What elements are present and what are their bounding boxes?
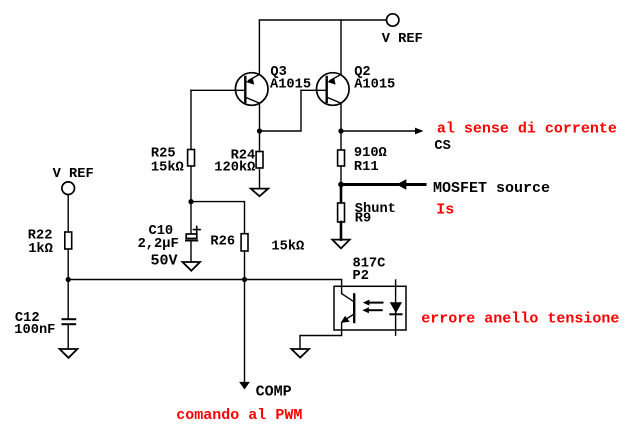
svg-text:2,2µF: 2,2µF	[138, 237, 179, 252]
ground under R24	[251, 189, 268, 197]
wire terminal to R22	[67, 195, 69, 233]
svg-text:MOSFET source: MOSFET source	[433, 180, 550, 197]
ground arrow under shunt R9	[332, 240, 349, 249]
svg-text:120kΩ: 120kΩ	[214, 160, 255, 175]
wire Q3 collector to Q2 base	[260, 90, 302, 131]
wire node to R24	[259, 131, 261, 152]
wire Q2 collector down to node	[340, 103, 342, 131]
wire R24 to ground	[259, 168, 261, 189]
node junction J5	[66, 277, 71, 282]
wire Q3 emitter to rail	[258, 20, 260, 75]
svg-text:P2: P2	[353, 269, 369, 284]
transistor Q3	[191, 73, 268, 106]
resistor R24	[256, 152, 263, 169]
wire J4 to R26	[191, 202, 245, 234]
svg-text:A1015: A1015	[354, 78, 395, 93]
wire C12 to ground	[67, 325, 69, 349]
svg-text:COMP: COMP	[256, 384, 292, 401]
wire COMP drop	[244, 280, 246, 383]
svg-text:V REF: V REF	[382, 32, 423, 47]
opto LED triangle	[390, 302, 402, 313]
capacitor C10 wire from J4	[190, 202, 192, 234]
opto light arrow upper	[369, 302, 383, 304]
capacitor C10 top plate	[186, 234, 197, 238]
svg-text:1kΩ: 1kΩ	[28, 242, 53, 257]
ground opto emitter	[291, 349, 309, 358]
wire R25 to junction J4	[190, 166, 192, 202]
opto light arrow lower	[368, 309, 382, 311]
resistor R26	[241, 234, 248, 251]
wire Q2 emitter to rail	[340, 20, 342, 75]
resistor R11	[338, 150, 345, 166]
node junction J2	[338, 128, 343, 133]
node junction J3 MOSFET source	[338, 182, 344, 188]
wire J5 to C12	[67, 280, 69, 319]
svg-text:R9: R9	[355, 212, 371, 227]
wire thick MOSFET source	[341, 183, 425, 186]
wire R11 to junction J3	[340, 166, 342, 185]
opto phototransistor	[341, 294, 355, 323]
wire thick shunt to arrow	[340, 222, 343, 240]
terminal V REF top right	[387, 14, 399, 26]
wire C10 to ground	[190, 242, 192, 263]
resistor R22	[65, 232, 72, 249]
svg-text:comando al PWM: comando al PWM	[176, 407, 302, 424]
svg-text:100nF: 100nF	[14, 323, 55, 338]
svg-text:errore anello tensione: errore anello tensione	[421, 311, 619, 328]
optocoupler P2 box	[334, 286, 406, 330]
svg-text:15kΩ: 15kΩ	[271, 240, 304, 255]
capacitor C12 bottom plate	[63, 323, 76, 325]
wire R26 to bus junction J6	[244, 251, 246, 280]
capacitor C10 plus sign	[193, 226, 200, 232]
svg-text:V REF: V REF	[53, 167, 94, 182]
ground under C12	[60, 349, 78, 358]
wire CS arrow to al sense di corrente	[341, 130, 416, 132]
svg-text:CS: CS	[434, 139, 450, 154]
wire opto emitter to ground	[300, 323, 342, 349]
resistor R25	[188, 150, 195, 167]
wire node to R11	[340, 131, 342, 150]
ground under C10	[183, 262, 201, 271]
wire R22 to junction J5	[67, 249, 69, 280]
wire thick J3 to shunt R9	[340, 185, 343, 204]
svg-text:al sense di corrente: al sense di corrente	[437, 120, 617, 137]
resistor R9 shunt	[338, 203, 345, 222]
capacitor C10 bottom plate	[186, 240, 197, 242]
wire top rail V REF	[259, 19, 386, 21]
svg-text:R25: R25	[151, 146, 176, 161]
svg-text:Is: Is	[436, 201, 454, 218]
svg-text:50V: 50V	[151, 252, 178, 269]
node junction J6	[242, 277, 247, 282]
svg-text:R11: R11	[354, 160, 379, 175]
wire Q3 base drop to R25	[190, 90, 192, 149]
capacitor C12 top plate	[63, 318, 76, 320]
terminal V REF left	[62, 182, 75, 195]
transistor Q2	[301, 73, 349, 106]
wire Q3 collector down to node	[259, 103, 261, 131]
svg-text:910Ω: 910Ω	[354, 146, 387, 161]
opto LED cathode bar	[390, 313, 401, 315]
opto LED vertical wire	[395, 280, 397, 335]
svg-text:A1015: A1015	[270, 78, 311, 93]
svg-text:R26: R26	[210, 235, 235, 250]
node junction J1	[257, 128, 262, 133]
wire bottom bus J5 to opto	[68, 280, 341, 294]
node junction J4	[188, 199, 193, 204]
svg-text:15kΩ: 15kΩ	[151, 161, 184, 176]
